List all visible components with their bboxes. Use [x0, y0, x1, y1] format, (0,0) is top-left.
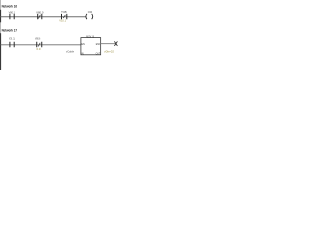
svg-text:Network 16: Network 16: [2, 4, 17, 8]
left power rail (network 16): [0, 10, 1, 22]
svg-text:vCable: vCable: [66, 49, 74, 53]
contact C4 (NO): [10, 42, 14, 48]
svg-text:V10.1: V10.1: [59, 19, 66, 23]
contact C3 NC slash: [63, 15, 65, 18]
contact C2 (NC) bars: [38, 14, 42, 19]
rung 2 wire: [1, 44, 82, 46]
contact C3 (NC) bars: [62, 14, 67, 19]
svg-text:V80.0: V80.0: [36, 10, 44, 14]
contact C1 (NO): [10, 14, 14, 19]
svg-text:OUT: OUT: [96, 51, 101, 55]
svg-text:I3.1: I3.1: [9, 36, 16, 40]
coil Q1 ( ): [86, 14, 87, 19]
svg-text:Network 17: Network 17: [2, 28, 17, 32]
svg-text:0.9: 0.9: [37, 47, 42, 51]
ENO wire end arrow: [114, 41, 117, 46]
svg-text:EN: EN: [81, 42, 84, 46]
ENO wire: [101, 43, 116, 45]
left power rail (network 17): [0, 33, 1, 70]
contact C5 (NC) bars: [37, 42, 42, 48]
svg-text:T38: T38: [61, 10, 67, 14]
window left border: [0, 0, 2, 70]
svg-text:V80.1: V80.1: [9, 10, 16, 14]
rung 1 wire: [1, 16, 86, 18]
MOV_B block box U1: [81, 38, 101, 55]
svg-text:C30: C30: [88, 10, 93, 14]
svg-text:ENO: ENO: [96, 42, 100, 46]
svg-text:V80.6: V80.6: [35, 36, 41, 40]
svg-text:vDir+02: vDir+02: [104, 49, 114, 53]
contact C2 NC slash: [38, 15, 40, 19]
svg-text:IN: IN: [81, 51, 83, 55]
contact C5 NC slash: [38, 43, 40, 47]
